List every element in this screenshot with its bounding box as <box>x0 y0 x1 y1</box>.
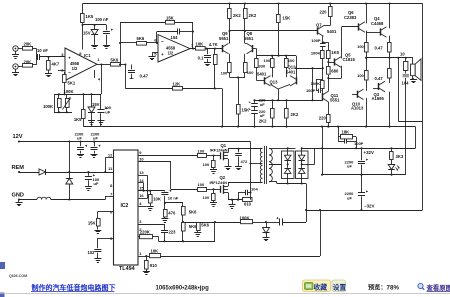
resistor 12K <box>173 82 183 91</box>
svg-text:+32V: +32V <box>364 150 374 155</box>
link caption <box>31 283 116 292</box>
wire Q5 base node <box>327 58 335 66</box>
svg-text:15K: 15K <box>283 16 291 21</box>
resistor 910 <box>143 256 158 275</box>
pin label 1 right <box>139 251 142 256</box>
wire Q2 source <box>228 193 251 201</box>
svg-text:10: 10 <box>400 51 405 56</box>
ground Q2 source <box>229 200 236 209</box>
inductor GND <box>37 197 51 199</box>
svg-text:C1815: C1815 <box>343 57 356 62</box>
transformer T1 secondary <box>269 148 272 181</box>
wire Q12 collector <box>286 75 290 78</box>
svg-text:−: − <box>161 39 164 45</box>
wire pin6 <box>146 42 158 44</box>
resistor 0.47 a <box>375 43 392 59</box>
pin 5 ground <box>149 53 159 60</box>
wire feedback right riser <box>192 23 194 50</box>
ground zener top <box>91 46 98 49</box>
wire Q6 emitter to Q4 base <box>365 30 381 34</box>
wire J1 to R 20K <box>18 48 22 50</box>
svg-text:uF: uF <box>347 164 352 169</box>
svg-text:5K6: 5K6 <box>189 224 197 229</box>
pin 2 wire <box>58 70 65 72</box>
text GND <box>12 192 24 198</box>
wire amp bottom rail <box>84 126 416 128</box>
wire secondary ct <box>269 164 288 166</box>
resistor 2K2 b <box>244 2 257 43</box>
svg-text:A1695: A1695 <box>372 96 385 101</box>
capacitor 104 out <box>402 74 410 175</box>
svg-text:20K: 20K <box>24 59 32 64</box>
wire pin4 stub <box>138 206 147 208</box>
svg-text:13: 13 <box>139 170 144 175</box>
transistor Q9 5551 <box>219 31 229 54</box>
resistor 5K6 e <box>182 207 198 224</box>
svg-text:100: 100 <box>198 182 205 187</box>
text TL494 <box>119 266 135 272</box>
svg-text:100: 100 <box>198 148 205 153</box>
resistor 1K5 top <box>81 4 94 26</box>
transistor Q10 A1013 <box>351 89 364 110</box>
svg-text:−32V: −32V <box>364 204 374 209</box>
wire pin1 long <box>161 256 321 258</box>
svg-text:IRF1Z44N: IRF1Z44N <box>210 149 228 153</box>
pin label 2 right <box>139 227 142 232</box>
resistor 610 <box>243 198 253 207</box>
separator line <box>0 293 450 295</box>
svg-text:100K: 100K <box>240 215 250 220</box>
svg-text:100: 100 <box>357 73 364 78</box>
svg-text:10: 10 <box>139 156 144 161</box>
svg-text:0.47: 0.47 <box>375 76 384 81</box>
capacitor 10nF input <box>37 48 48 60</box>
svg-text:5401: 5401 <box>257 72 267 77</box>
resistor 100 c <box>264 56 275 75</box>
ground 10K pin16 <box>147 207 154 211</box>
resistor 100 pd1 <box>203 156 218 174</box>
pin label 2 <box>61 68 64 73</box>
text REM <box>12 165 25 171</box>
svg-text:uF: uF <box>347 195 352 200</box>
wire vas bracket <box>257 55 297 57</box>
ground 100nF top <box>103 46 110 49</box>
op-amp U1B 4558 <box>158 35 190 62</box>
wire 12V feed <box>249 142 262 200</box>
svg-text:10 nF: 10 nF <box>37 48 48 53</box>
svg-text:220: 220 <box>319 115 327 120</box>
wire feedback left riser <box>120 23 122 65</box>
capacitor 472 <box>235 149 248 170</box>
pin label 4 right <box>139 201 142 206</box>
wire right rail <box>422 4 424 211</box>
resistor 100 e1 <box>221 54 231 78</box>
wire 12K run <box>125 87 216 89</box>
capacitor 2200uF neg <box>345 175 369 211</box>
wire Q3 emitter <box>385 92 391 128</box>
wire Q8 base <box>253 49 257 56</box>
text 12V <box>13 134 23 140</box>
wire 20K upper to node <box>32 48 37 50</box>
svg-text:制作的汽车低音炮电路图下: 制作的汽车低音炮电路图下 <box>32 283 116 292</box>
pin label 13 right <box>139 170 144 175</box>
wire pin1 <box>138 255 150 257</box>
resistor 330 <box>255 56 266 81</box>
capacitor 220uF a <box>249 98 267 107</box>
pin label 9 right <box>139 150 142 155</box>
svg-text:4.7K: 4.7K <box>209 42 218 47</box>
text Q606.COM <box>9 274 27 278</box>
svg-text:C2383: C2383 <box>344 15 357 20</box>
svg-text:+: + <box>249 107 251 111</box>
transistor Q6 C2383 <box>344 10 365 32</box>
capacitor 104 snub <box>238 187 258 200</box>
resistor 100 g <box>357 32 368 59</box>
text 100K b <box>311 81 321 86</box>
text 4.7K <box>209 42 218 47</box>
svg-text:100K: 100K <box>311 81 321 86</box>
wire secondary bottom <box>269 182 277 184</box>
wire 12K to amp rail <box>215 89 223 128</box>
wire feedback top <box>120 22 193 24</box>
resistor 680 <box>327 67 339 75</box>
resistor 10 out <box>400 51 408 73</box>
svg-text:5401: 5401 <box>286 69 296 74</box>
wire op1 out <box>97 64 110 66</box>
svg-text:470: 470 <box>168 211 176 216</box>
resistor 15K tail <box>237 77 250 127</box>
wire Q3 collector <box>385 78 390 83</box>
svg-text:100K: 100K <box>311 51 321 56</box>
pin label 5 left <box>110 236 113 241</box>
svg-text:uF: uF <box>94 181 99 186</box>
svg-text:2K2: 2K2 <box>233 13 241 18</box>
resistor 1K5 lower <box>74 94 85 126</box>
ground 4K7 <box>45 71 52 77</box>
svg-text:610: 610 <box>244 201 252 206</box>
wire Q4 emitter <box>387 36 390 43</box>
svg-text:100: 100 <box>203 195 210 200</box>
wire 20K lower to node <box>32 64 37 66</box>
svg-text:2K2: 2K2 <box>249 13 257 18</box>
svg-text:12K: 12K <box>173 82 181 87</box>
buttons favorite settings <box>303 280 347 292</box>
capacitor 100uF rem <box>85 172 100 191</box>
pot frame <box>54 94 72 112</box>
svg-text:Q2: Q2 <box>220 175 226 180</box>
svg-text:1/2: 1/2 <box>72 66 78 71</box>
svg-text:223: 223 <box>169 230 177 235</box>
svg-text:收藏: 收藏 <box>314 283 328 292</box>
wire zener node <box>81 24 106 26</box>
wire Q12 base <box>295 56 323 77</box>
svg-text:5551: 5551 <box>219 36 229 41</box>
wire bottom link <box>159 240 216 242</box>
resistor 220 q11 <box>319 115 330 128</box>
svg-text:GND: GND <box>12 192 24 198</box>
mosfet Q1 IRF1Z44N <box>210 143 228 160</box>
svg-text:5K6: 5K6 <box>137 36 145 41</box>
rectifier bridge B <box>296 148 309 183</box>
svg-text:330: 330 <box>259 64 266 69</box>
svg-text:0.47: 0.47 <box>140 73 149 78</box>
svg-text:+: + <box>161 52 164 57</box>
pin label 7 left <box>110 191 113 196</box>
resistor 5K6 g <box>194 222 209 237</box>
resistor 100 g2 <box>198 182 207 191</box>
svg-text:12V: 12V <box>13 134 23 140</box>
led indicator <box>388 165 399 175</box>
pin label 6 left <box>110 210 113 215</box>
wire 12V rail <box>18 140 251 142</box>
wire +32V rail <box>302 147 416 149</box>
svg-text:18K: 18K <box>342 130 350 135</box>
pin label 8 left <box>110 183 113 188</box>
svg-text:20K: 20K <box>24 42 32 47</box>
capacitor 10nF <box>161 190 178 204</box>
svg-text:查看原图: 查看原图 <box>427 283 450 292</box>
wire 5K6b left <box>119 42 136 44</box>
svg-text:+: + <box>249 100 251 104</box>
pin label 10 right <box>139 156 144 161</box>
wire 5K6a to node <box>119 63 127 65</box>
svg-text:220K: 220K <box>140 229 150 234</box>
svg-text:预览：78%: 预览：78% <box>368 284 399 292</box>
svg-text:10K: 10K <box>153 197 161 202</box>
wire Q1 source <box>225 159 232 170</box>
pin label 15 right <box>139 186 144 191</box>
potentiometer 100K <box>63 94 71 113</box>
wire Q3 base stub <box>373 88 379 90</box>
svg-text:100: 100 <box>288 58 295 63</box>
svg-text:5K6: 5K6 <box>201 222 209 227</box>
transistor Q8 5551 <box>244 31 254 54</box>
transformer T1 core <box>265 146 267 184</box>
svg-text:15K: 15K <box>88 221 96 226</box>
text preview percent <box>368 284 399 292</box>
svg-text:0.47: 0.47 <box>375 45 384 50</box>
ground J2 <box>12 69 19 75</box>
wire 1K5c top <box>322 41 329 43</box>
speaker SP <box>411 58 422 81</box>
svg-text:REM: REM <box>12 165 25 171</box>
wire pot top <box>54 93 101 95</box>
link view original <box>427 283 450 292</box>
svg-text:1065x690•248k•jpg: 1065x690•248k•jpg <box>156 286 210 292</box>
svg-text:uF: uF <box>105 110 110 115</box>
resistor 0.47 b <box>375 58 392 81</box>
pin label 3 right <box>139 219 142 224</box>
ground GND terminal <box>16 200 23 206</box>
svg-text:10 nF: 10 nF <box>168 195 179 200</box>
svg-text:100P: 100P <box>306 88 316 93</box>
resistor 20K upper <box>23 42 33 51</box>
capacitor 100nF top <box>103 25 113 45</box>
wire Q8 collector <box>245 43 247 45</box>
capacitor 100uF lower <box>98 94 112 126</box>
svg-text:12: 12 <box>108 153 113 158</box>
pin label 5 <box>154 51 157 56</box>
svg-text:4K7: 4K7 <box>52 61 60 66</box>
wire 12V to zener <box>69 142 71 179</box>
transformer T1 primary <box>260 148 262 182</box>
wire Q13 collector <box>271 75 273 78</box>
diode REM <box>39 169 46 175</box>
wire -32V riser <box>321 127 323 176</box>
svg-text:10K: 10K <box>196 42 204 47</box>
resistor 220K <box>140 229 153 238</box>
rectifier bridge A <box>282 148 295 183</box>
wire bridge feed top <box>282 147 303 149</box>
svg-text:15V: 15V <box>92 102 100 107</box>
resistor 100 g1 <box>198 148 207 157</box>
svg-text:104: 104 <box>171 35 179 40</box>
wire pin1 riser <box>320 210 322 256</box>
pin 4 stub <box>95 70 101 82</box>
ground speaker <box>410 80 417 83</box>
svg-text:100: 100 <box>203 162 210 167</box>
diode sense <box>263 222 270 241</box>
wire pins 13-16 outer <box>138 175 149 198</box>
zener REM <box>66 179 73 200</box>
wire pin11 <box>105 172 113 174</box>
capacitor 0.47 series <box>125 65 148 89</box>
svg-text:15V: 15V <box>83 31 91 36</box>
resistor 10K pin16 <box>149 191 161 207</box>
text 100K mid <box>64 89 74 94</box>
wire J2 to R 20K <box>18 66 22 68</box>
resistor 100 d <box>285 56 296 75</box>
svg-text:Q13: Q13 <box>270 79 279 84</box>
wire Q11 emitter <box>328 102 330 114</box>
wire secondary top <box>269 148 282 150</box>
wire pin12 drop <box>105 158 113 173</box>
resistor 5K6 f <box>182 223 198 243</box>
svg-text:15K: 15K <box>166 16 174 21</box>
capacitor 100P b <box>306 79 323 93</box>
svg-text:A1013: A1013 <box>351 106 364 111</box>
pin label 3 <box>61 52 64 57</box>
wire Q7 emitter <box>323 26 325 28</box>
wire Q10 emitter <box>364 98 368 128</box>
transistor Q5 C1815 <box>335 53 356 68</box>
wire input join <box>36 49 39 65</box>
svg-text:5551: 5551 <box>244 36 254 41</box>
text image info <box>156 286 210 292</box>
svg-text:472: 472 <box>241 159 248 164</box>
resistor 3K3 <box>390 147 404 164</box>
IC U2 TL494 body <box>114 150 139 265</box>
svg-text:Q7: Q7 <box>316 22 322 27</box>
wire GND lead <box>18 198 70 200</box>
op-amp U1A 4558 <box>65 48 97 81</box>
resistor 100K fixed <box>58 94 62 113</box>
wire pin15 run <box>138 190 165 192</box>
wire REM <box>18 171 114 173</box>
svg-text:16: 16 <box>139 193 144 198</box>
resistor 18K <box>338 127 356 139</box>
text -32V <box>364 204 374 209</box>
ground J1 <box>12 51 19 58</box>
svg-text:100P: 100P <box>311 38 321 43</box>
transistor Q12 5401 <box>286 64 297 86</box>
wire GND to pin7 <box>51 196 114 200</box>
resistor 5K1 <box>63 72 76 94</box>
svg-text:5K1: 5K1 <box>68 81 76 86</box>
wire Q4 collector <box>387 2 391 28</box>
svg-text:1K5: 1K5 <box>74 117 82 122</box>
capacitor 220uF b <box>249 107 267 128</box>
text IC1 <box>84 53 91 58</box>
wire pin3 <box>138 224 165 226</box>
wire sense run <box>183 221 240 223</box>
wire rail to +32V <box>415 127 417 149</box>
zener 15V lower <box>88 93 100 126</box>
wire output node <box>366 57 413 59</box>
resistor 220 top <box>320 2 333 25</box>
svg-text:3K3: 3K3 <box>396 154 404 159</box>
resistor 10K pin1 <box>150 249 161 258</box>
svg-text:1K5: 1K5 <box>86 14 94 19</box>
capacitor 223 <box>161 224 176 241</box>
svg-text:1K5: 1K5 <box>331 50 339 55</box>
wire gate2 <box>207 189 222 191</box>
resistor 1K5 c <box>327 42 340 58</box>
svg-text:IC2: IC2 <box>121 203 129 209</box>
svg-text:IC1: IC1 <box>84 53 91 58</box>
svg-text:C4468: C4468 <box>371 21 384 26</box>
wire Q10 base stub <box>352 94 358 96</box>
capacitor 2200uF c <box>75 131 88 157</box>
resistor 2K2 d <box>285 100 299 127</box>
transistor Q7 5401 <box>316 22 337 36</box>
wire diff emitters <box>271 84 291 100</box>
blue square bottom <box>0 293 5 297</box>
wire emitter join <box>230 76 246 78</box>
pin label 14 right <box>139 178 144 183</box>
ground mark zener lower <box>88 121 95 125</box>
svg-text:+: + <box>68 55 71 60</box>
resistor 2K2 a <box>228 2 242 43</box>
resistor 100K b <box>321 81 325 94</box>
wire Q1 drain <box>228 148 263 153</box>
svg-text:2K2: 2K2 <box>259 118 267 123</box>
svg-text:100: 100 <box>264 58 271 63</box>
svg-text:0.1: 0.1 <box>198 56 204 61</box>
wire Q2 drain <box>228 182 263 186</box>
icon magnifier <box>418 283 424 289</box>
resistor 4K7b vertical <box>214 49 218 89</box>
wire pin10 <box>138 162 215 191</box>
mosfet Q2 IRF1Z44N <box>210 175 229 194</box>
svg-text:5401: 5401 <box>327 29 337 34</box>
svg-text:102: 102 <box>88 250 96 255</box>
resistor 2K2 c <box>259 100 274 127</box>
svg-text:100: 100 <box>357 44 364 49</box>
svg-text:TL494: TL494 <box>119 266 135 272</box>
ground mark cap lower <box>98 121 105 125</box>
svg-text:uF: uF <box>93 136 98 141</box>
svg-text:680: 680 <box>331 69 339 74</box>
pin label 1 <box>97 57 100 62</box>
capacitor 2200uF d <box>91 131 101 157</box>
wire pins 14-15 inner <box>138 183 145 192</box>
wire pot right riser <box>100 63 102 94</box>
transistor Q3 A1695 <box>372 81 386 101</box>
resistor 100K a <box>311 51 324 81</box>
transistor Q13 5401 <box>257 72 279 87</box>
svg-text:100 nF: 100 nF <box>95 17 109 22</box>
